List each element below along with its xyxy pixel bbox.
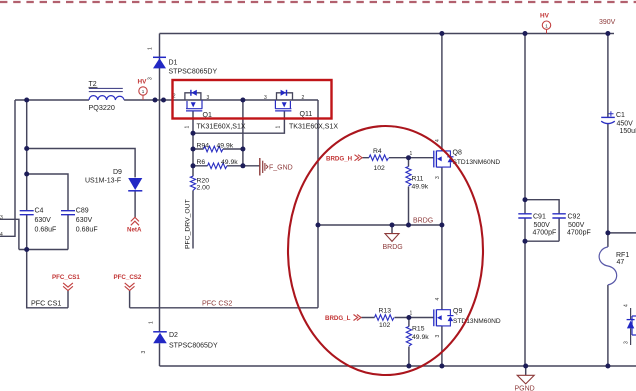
svg-text:HV: HV <box>138 79 148 86</box>
junction R13 R15 Q9 gate <box>406 315 411 320</box>
svg-text:0.68uF: 0.68uF <box>76 226 98 233</box>
svg-text:R15: R15 <box>412 326 425 333</box>
diode D2 STPSC8065DY <box>141 321 218 354</box>
svg-text:STD13NM60ND: STD13NM60ND <box>453 318 501 325</box>
junction bottom rail Q9 source <box>439 364 444 369</box>
junction main wire at HV left <box>153 98 158 103</box>
resistor R94 49.9k <box>197 142 234 152</box>
svg-text:R20: R20 <box>197 177 210 184</box>
dots-start <box>24 31 610 369</box>
junction top rail / Q8 drain <box>439 31 444 36</box>
transformer T2 <box>89 81 125 112</box>
wire PFC_CS2 stub <box>129 290 131 307</box>
wire R15 leads <box>408 318 410 367</box>
svg-text:Q8: Q8 <box>453 149 462 156</box>
svg-text:Q9: Q9 <box>453 308 462 315</box>
wire R6 row <box>193 165 243 167</box>
wire D2 rail <box>159 100 161 366</box>
capacitor C92 <box>552 214 590 237</box>
resistor R20 2.00 <box>190 176 210 191</box>
power symbol PFC_CS1 <box>52 274 80 291</box>
wire F_GND stub <box>243 165 260 167</box>
diode D1 STPSC8065DY <box>148 47 218 80</box>
svg-text:0.68uF: 0.68uF <box>35 226 57 233</box>
svg-text:STPSC8065DY: STPSC8065DY <box>169 69 218 76</box>
capacitor C4 <box>20 208 57 234</box>
svg-text:1: 1 <box>185 126 191 129</box>
svg-text:1: 1 <box>545 23 548 28</box>
junction inner rail / C89 top <box>24 172 29 177</box>
junction R94 left <box>191 147 196 152</box>
svg-text:1: 1 <box>410 151 413 157</box>
svg-text:R4: R4 <box>373 148 382 155</box>
svg-text:3: 3 <box>207 95 210 101</box>
svg-text:390V: 390V <box>599 19 616 26</box>
wire to optocoupler <box>608 232 636 234</box>
resistor R13 102 <box>375 308 394 330</box>
wire C91 rail <box>524 34 526 367</box>
wire connector pin stub <box>0 219 19 249</box>
svg-text:R6: R6 <box>197 159 206 166</box>
svg-text:150uF: 150uF <box>620 128 636 135</box>
svg-text:NetA: NetA <box>127 227 142 234</box>
junction bottom rail RF1 <box>605 364 610 369</box>
svg-text:D1: D1 <box>169 60 178 67</box>
wire PFC CS2 net <box>130 307 318 309</box>
svg-text:4: 4 <box>624 304 630 307</box>
wire BRDG ground stub <box>391 225 393 234</box>
optocoupler fragment right edge <box>624 304 636 345</box>
capacitor C89 <box>61 208 98 234</box>
svg-text:BRDG_L: BRDG_L <box>325 315 351 322</box>
svg-text:C91: C91 <box>533 214 546 221</box>
svg-text:PFC CS1: PFC CS1 <box>31 299 61 308</box>
svg-text:49.9k: 49.9k <box>221 159 238 166</box>
svg-text:BRDG: BRDG <box>413 218 433 225</box>
svg-text:TK31E60X,S1X: TK31E60X,S1X <box>289 124 338 131</box>
svg-text:PFC_CS2: PFC_CS2 <box>114 274 142 281</box>
capacitor C1 450V 150uF <box>601 111 636 135</box>
junction BRDG Q8 source <box>439 223 444 228</box>
wire bottom PGND rail <box>160 365 636 367</box>
junction top rail / C91 <box>523 31 528 36</box>
junction BRDG ground <box>390 223 395 228</box>
page border dashed top <box>0 1 636 3</box>
junction BRDG row left <box>316 223 321 228</box>
svg-text:102: 102 <box>374 165 386 172</box>
net port BRDG_L <box>325 315 361 323</box>
resistor R15 49.9k <box>406 326 429 346</box>
svg-text:PFC CS2: PFC CS2 <box>202 299 232 308</box>
junction inner rail / main wire <box>24 98 29 103</box>
capacitor C91 <box>518 214 556 237</box>
junction inner rail / D9 row <box>24 146 29 151</box>
diode D9 US1M-13-F <box>85 169 142 191</box>
svg-text:630V: 630V <box>35 217 52 224</box>
wire R11 leads <box>408 158 410 225</box>
wire source sense column <box>242 100 244 166</box>
junction RF1 opto tap <box>605 230 610 235</box>
annotation red ellipse around bridge drive <box>288 126 483 375</box>
svg-text:C4: C4 <box>35 208 44 215</box>
svg-text:1: 1 <box>149 321 155 324</box>
net port BRDG_H <box>326 155 362 163</box>
svg-text:4: 4 <box>435 298 441 301</box>
svg-text:D9: D9 <box>113 169 122 176</box>
resistor R6 49.9k <box>197 159 239 169</box>
svg-text:PFC_DRV_OUT: PFC_DRV_OUT <box>185 199 192 249</box>
junction bottom rail PGND <box>523 364 528 369</box>
svg-text:HV: HV <box>540 13 550 20</box>
wire PFC CS1 net <box>27 250 68 308</box>
annotation red rectangle around Q1 Q11 <box>173 80 332 119</box>
svg-text:C92: C92 <box>568 214 581 221</box>
svg-text:4: 4 <box>435 139 441 142</box>
svg-text:PGND: PGND <box>515 385 535 391</box>
wire PFC_CS1 stub <box>67 290 69 307</box>
svg-text:RF1: RF1 <box>616 252 629 259</box>
power symbol NetA <box>127 217 142 233</box>
junction gate bus <box>191 131 196 136</box>
svg-text:TK31E60X,S1X: TK31E60X,S1X <box>197 124 246 131</box>
svg-text:C1: C1 <box>616 112 625 119</box>
junction R6 right <box>240 163 245 168</box>
svg-text:4700pF: 4700pF <box>567 230 591 237</box>
svg-text:3: 3 <box>141 351 147 354</box>
junction R4 R11 Q8 gate <box>406 155 411 160</box>
wire left outer rail to connector <box>0 100 15 236</box>
wire C89 top branch <box>27 174 68 211</box>
svg-text:4700pF: 4700pF <box>533 230 557 237</box>
wire 390V stub <box>608 33 614 35</box>
svg-text:102: 102 <box>379 322 391 329</box>
junction bottom rail R15 <box>406 364 411 369</box>
power symbol HV left <box>138 79 148 101</box>
svg-text:R13: R13 <box>379 308 392 315</box>
svg-text:500V: 500V <box>568 222 585 229</box>
svg-text:1: 1 <box>410 311 413 317</box>
svg-text:3: 3 <box>0 215 3 221</box>
svg-text:3: 3 <box>435 335 441 338</box>
wire C1 RF1 rail <box>607 34 609 367</box>
svg-text:1: 1 <box>148 47 154 50</box>
wire Q9 source <box>441 326 443 366</box>
fuse resistor RF1 47 <box>599 247 629 285</box>
power symbol HV right <box>540 13 551 34</box>
junction R94 right <box>240 147 245 152</box>
wire main PFC node horizontal left of T2 <box>15 99 89 101</box>
power symbol PGND <box>515 375 535 391</box>
svg-text:1: 1 <box>142 89 145 94</box>
transistor Q1 TK31E60X <box>173 90 246 131</box>
svg-text:BRDG_H: BRDG_H <box>326 155 353 162</box>
connector pin stubs left edge <box>0 215 3 238</box>
svg-text:STPSC8065DY: STPSC8065DY <box>169 342 218 349</box>
svg-text:T2: T2 <box>89 81 97 88</box>
wire gate bus Q1-Q11 <box>193 111 284 133</box>
svg-text:49.9k: 49.9k <box>412 334 429 341</box>
svg-text:F_GND: F_GND <box>269 165 293 172</box>
svg-text:3: 3 <box>264 95 267 101</box>
svg-text:3: 3 <box>624 341 630 344</box>
svg-text:R11: R11 <box>412 175 424 182</box>
svg-text:BRDG: BRDG <box>383 244 403 251</box>
svg-text:C89: C89 <box>76 208 89 215</box>
svg-text:Q11: Q11 <box>300 111 313 118</box>
svg-text:4: 4 <box>0 232 3 238</box>
svg-text:PFC_CS1: PFC_CS1 <box>52 274 80 281</box>
svg-text:D2: D2 <box>169 332 178 339</box>
wire inner left rail <box>26 100 28 250</box>
svg-text:PQ3220: PQ3220 <box>89 103 115 112</box>
transistor Q8 STD13NM60ND <box>410 139 501 179</box>
svg-text:US1M-13-F: US1M-13-F <box>85 177 121 184</box>
wire Q8 drain rail <box>441 34 443 151</box>
junction Q1-Q11 midpoint <box>240 98 245 103</box>
svg-text:47: 47 <box>617 259 625 266</box>
junction R6 left <box>191 163 196 168</box>
svg-text:630V: 630V <box>76 217 93 224</box>
svg-text:3: 3 <box>148 77 154 80</box>
svg-text:3: 3 <box>435 176 441 179</box>
junction main wire at D1 <box>161 98 166 103</box>
wire BRDG_L to Q9 gate <box>361 317 434 319</box>
resistor R4 102 <box>369 148 388 172</box>
svg-text:500V: 500V <box>534 222 551 229</box>
svg-text:1: 1 <box>276 126 282 129</box>
power symbol PFC_CS2 <box>114 274 142 291</box>
power symbol BRDG ground <box>383 234 403 252</box>
wire R94 row <box>193 148 243 150</box>
wire right rail of loop down to PFC CS2 <box>317 100 319 308</box>
svg-text:49.9k: 49.9k <box>217 142 234 149</box>
junction inner rail / caps bottom <box>24 247 29 252</box>
power symbol F_GND <box>260 158 293 176</box>
wire BRDG_H to Q8 gate <box>362 157 434 159</box>
wire top rail HV/390V <box>160 33 608 35</box>
svg-text:2.00: 2.00 <box>197 185 210 192</box>
resistor R11 49.9k <box>406 167 429 191</box>
svg-text:450V: 450V <box>617 120 634 127</box>
junction C91 C92 bottom <box>523 239 528 244</box>
wire PGND stub <box>525 366 527 375</box>
transistor Q9 STD13NM60ND <box>410 298 501 338</box>
wire Q8 source to Q9 drain rail <box>441 167 443 310</box>
svg-text:2: 2 <box>302 95 305 101</box>
junction top rail / C1 390V <box>605 31 610 36</box>
wire D1 branch vertical <box>159 34 161 101</box>
svg-text:49.9k: 49.9k <box>412 183 429 190</box>
wire gate divider column <box>192 133 194 248</box>
wire main PFC node horizontal T2 to corner <box>124 99 318 101</box>
wire caps bottom row <box>19 249 68 251</box>
wire C89 bottom lead <box>67 215 69 250</box>
wire D9 to NetA stub <box>134 191 136 217</box>
svg-text:STD13NM60ND: STD13NM60ND <box>453 159 501 166</box>
transistor Q11 TK31E60X <box>264 90 338 131</box>
wire C92 loop <box>525 200 559 242</box>
junction C91 C92 top <box>523 197 528 202</box>
wire D9 row <box>27 149 135 178</box>
junction BRDG R11 <box>406 223 411 228</box>
svg-text:R94: R94 <box>197 142 210 149</box>
wire BRDG row <box>318 224 442 226</box>
